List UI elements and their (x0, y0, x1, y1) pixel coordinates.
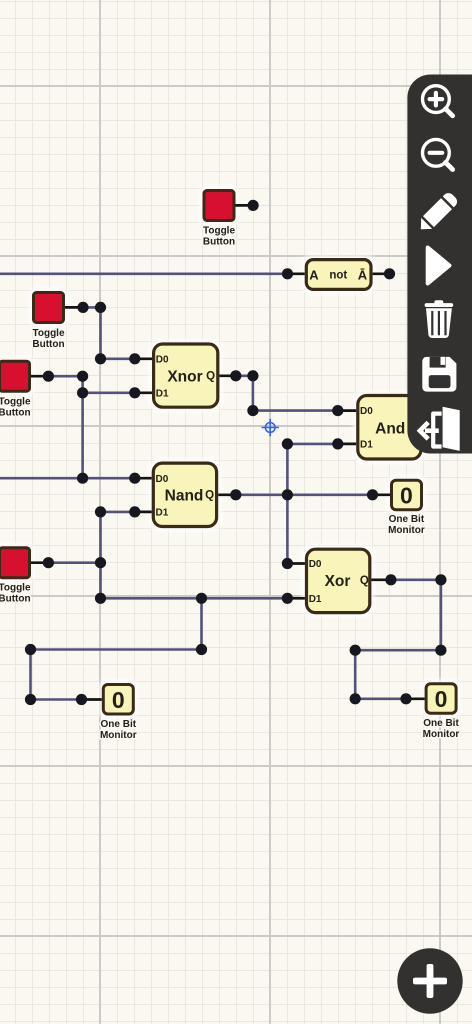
junction, net D tee (77, 371, 88, 382)
one bit monitor M3 (100, 685, 137, 741)
junction, Not input on net A (282, 268, 293, 279)
terminal dot, Not output (384, 268, 395, 279)
And pin D0 stub (338, 409, 356, 412)
wire net D (toggle TB3 to Xnor D1 / Nand D0) segment 3 horizontal (83, 391, 135, 394)
terminal dot, toggle TB2 output (77, 302, 88, 313)
toggle button TB3 (0, 361, 31, 418)
svg-text:D1: D1 (156, 508, 169, 519)
svg-text:D0: D0 (156, 354, 169, 365)
halo glow under components (0, 186, 461, 719)
add FAB button (397, 948, 462, 1013)
wire net G (toggle TB4 / Nand D1 to Xor D1 / Monitor M3) segment 3 horizontal (48, 561, 100, 564)
junction, net G corner (95, 506, 106, 517)
toolbar icon: play (428, 248, 450, 284)
terminal dot, Monitor M3 wire end (76, 694, 87, 705)
terminal dot, And D0 input (332, 405, 343, 416)
Xor pin Q stub (371, 578, 391, 581)
junction, net F cross (282, 489, 293, 500)
junction, net D branch to Xnor D1 (77, 387, 88, 398)
junction, net E corner lower (247, 405, 258, 416)
wire net G (toggle TB4 / Nand D1 to Xor D1 / Monitor M3) segment 6 horizontal (31, 648, 202, 651)
terminal dot, Nand Q output (230, 489, 241, 500)
svg-text:Button: Button (32, 339, 64, 350)
svg-text:Ā: Ā (358, 267, 368, 282)
svg-text:D1: D1 (156, 388, 169, 399)
wire net F (Nand Q to Monitor M1 / And D1 / Xor D0) segment 1 horizontal (236, 493, 373, 496)
terminal dot, Nand D0 input (129, 473, 140, 484)
svg-text:Toggle: Toggle (0, 397, 31, 408)
svg-text:And: And (375, 421, 405, 438)
Xnor pin D1 stub (135, 391, 152, 394)
wire net G (toggle TB4 / Nand D1 to Xor D1 / Monitor M3) segment 4 horizontal (101, 597, 288, 600)
terminal dot, Xnor D1 input (129, 387, 140, 398)
toggle button TB2 (32, 293, 65, 351)
svg-text:Button: Button (203, 237, 235, 248)
wire net F (Nand Q to Monitor M1 / And D1 / Xor D0) segment 2 vertical (286, 444, 289, 564)
gate U2 Xnor (154, 344, 218, 407)
svg-text:Monitor: Monitor (423, 729, 460, 740)
toolbar icon: save (422, 357, 456, 392)
terminal dot, Nand D1 input (129, 506, 140, 517)
junction, net F end at Xor D0 (282, 558, 293, 569)
toggle button TB1 (203, 191, 236, 248)
junction, net C corner (95, 302, 106, 313)
wire net E (Xnor Q to And D0) segment 1 horizontal (236, 374, 253, 377)
wire net G (toggle TB4 / Nand D1 to Xor D1 / Monitor M3) segment 1 horizontal (101, 511, 135, 514)
wire net D (toggle TB3 to Xnor D1 / Nand D0) segment 1 horizontal (48, 375, 82, 378)
canvas center crosshair (262, 419, 279, 436)
Nand pin D1 stub (135, 511, 152, 514)
wire net H (Xor Q to Monitor M2) segment 2 vertical (440, 580, 443, 650)
Xnor pin D0 stub (135, 357, 152, 360)
svg-text:A: A (309, 267, 319, 282)
Not output pin stub (373, 272, 390, 275)
Xor pin D1 stub (287, 597, 305, 600)
terminal dot, Xor Q output (385, 574, 396, 585)
svg-text:D0: D0 (360, 406, 373, 417)
terminal dot, And D1 input (332, 438, 343, 449)
junction, net G corner lower (95, 593, 106, 604)
wire net A (feed to Not input) segment 1 horizontal (0, 272, 288, 275)
junction, net G corner mid (196, 644, 207, 655)
toolbar icon: zoom in (423, 86, 453, 116)
junction, net H corner bottom (350, 693, 361, 704)
svg-text:Q: Q (360, 575, 369, 587)
svg-text:Xnor: Xnor (167, 369, 202, 386)
gate U4 And (partly under toolbar) (358, 396, 421, 460)
junction, net G tee to Monitor M3 (196, 593, 207, 604)
gate U1 Not (306, 260, 371, 290)
Monitor M3 input stub (82, 698, 102, 701)
one bit monitor M2 (423, 684, 460, 740)
svg-text:Button: Button (0, 408, 31, 419)
svg-text:D0: D0 (156, 474, 169, 485)
toolbar icon: zoom out (423, 139, 453, 169)
wire net H (Xor Q to Monitor M2) segment 3 horizontal (355, 649, 441, 652)
one bit monitor M1 (388, 480, 425, 536)
junction, net C corner to Xnor D0 (95, 353, 106, 364)
gate U5 Xor (307, 549, 370, 612)
wire net D (toggle TB3 to Xnor D1 / Nand D0) segment 4 horizontal (0, 477, 135, 480)
svg-text:One Bit: One Bit (389, 514, 425, 525)
junction, net H corner right (435, 645, 446, 656)
svg-text:D0: D0 (309, 559, 322, 570)
toggle TB3 output stub (31, 375, 48, 378)
svg-text:0: 0 (400, 482, 413, 508)
wire net C (toggle TB2 to Xnor D0) segment 1 horizontal (83, 306, 101, 309)
junction, net H corner mid (350, 645, 361, 656)
svg-text:D1: D1 (360, 440, 373, 451)
wire net G (toggle TB4 / Nand D1 to Xor D1 / Monitor M3) segment 5 vertical (200, 598, 203, 649)
toolbar icon: trash (425, 300, 454, 338)
svg-text:Monitor: Monitor (100, 730, 137, 741)
junction, net G end at Xor D1 (282, 593, 293, 604)
svg-text:Button: Button (0, 594, 31, 605)
wire net C (toggle TB2 to Xnor D0) segment 3 horizontal (101, 357, 135, 360)
And pin D1 stub (338, 443, 356, 446)
wire net H (Xor Q to Monitor M2) segment 5 horizontal (355, 697, 406, 700)
svg-text:Xor: Xor (325, 573, 351, 590)
terminal dot, Monitor M1 input (367, 489, 378, 500)
toggle TB1 output stub (236, 204, 254, 207)
junction, net H corner (435, 574, 446, 585)
wire net E (Xnor Q to And D0) segment 3 horizontal (253, 409, 338, 412)
Xnor pin Q stub (219, 374, 235, 377)
toggle TB4 output stub (31, 561, 48, 564)
junction, net E corner (247, 370, 258, 381)
svg-text:not: not (329, 270, 347, 282)
terminal dot, Monitor M2 wire end (400, 693, 411, 704)
svg-text:Toggle: Toggle (203, 226, 235, 237)
Nand pin D0 stub (135, 477, 152, 480)
toolbar icon: exit (420, 407, 460, 451)
wire net G (toggle TB4 / Nand D1 to Xor D1 / Monitor M3) segment 8 horizontal (31, 698, 82, 701)
wire net G (toggle TB4 / Nand D1 to Xor D1 / Monitor M3) segment 7 vertical (29, 650, 32, 700)
terminal dot, toggle TB4 output (43, 557, 54, 568)
svg-text:Nand: Nand (165, 487, 204, 504)
wire net C (toggle TB2 to Xnor D0) segment 2 vertical (99, 307, 102, 358)
svg-text:0: 0 (435, 686, 448, 712)
wire net D (toggle TB3 to Xnor D1 / Nand D0) segment 2 vertical (81, 376, 84, 478)
Monitor M1 input stub (373, 493, 391, 496)
Monitor M2 input stub (406, 697, 425, 700)
terminal dot, Xnor Q output (230, 370, 241, 381)
svg-text:Q: Q (205, 490, 214, 502)
terminal dot, toggle TB3 output (43, 371, 54, 382)
wire net H (Xor Q to Monitor M2) segment 1 horizontal (391, 578, 441, 581)
Not input pin A stub (288, 272, 305, 275)
Nand pin Q stub (218, 493, 236, 496)
svg-text:One Bit: One Bit (101, 719, 137, 730)
junction, net D tee at left feed (77, 473, 88, 484)
junction, net G corner bottom (25, 694, 36, 705)
Xor pin D0 stub (287, 562, 305, 565)
wire net G (toggle TB4 / Nand D1 to Xor D1 / Monitor M3) segment 2 vertical (99, 512, 102, 598)
wire net H (Xor Q to Monitor M2) segment 4 vertical (354, 650, 357, 699)
svg-text:Toggle: Toggle (32, 328, 64, 339)
terminal dot, Xnor D0 input (129, 353, 140, 364)
junction, net G tee (95, 557, 106, 568)
wire net F (Nand Q to Monitor M1 / And D1 / Xor D0) segment 3 horizontal (287, 443, 337, 446)
wire net E (Xnor Q to And D0) segment 2 vertical (252, 376, 255, 411)
toolbar icon: pencil (415, 191, 459, 235)
svg-text:One Bit: One Bit (423, 718, 459, 729)
junction, net F corner to And D1 (282, 438, 293, 449)
gate U3 Nand (153, 463, 216, 526)
toggle TB2 output stub (65, 306, 83, 309)
junction, net G corner left (25, 644, 36, 655)
svg-text:D1: D1 (309, 594, 322, 605)
terminal dot, toggle TB1 output (248, 200, 259, 211)
svg-text:Q: Q (206, 371, 215, 383)
svg-text:0: 0 (112, 687, 125, 713)
svg-text:Monitor: Monitor (388, 525, 425, 536)
svg-text:Toggle: Toggle (0, 583, 31, 594)
toggle button TB4 (0, 548, 31, 605)
toolbar panel (407, 75, 472, 454)
